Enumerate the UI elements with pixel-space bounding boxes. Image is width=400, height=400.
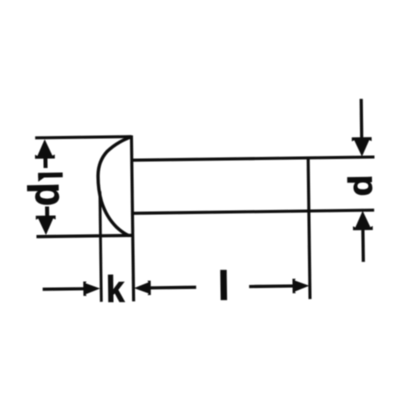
label d1 (rotated) : subscript 1 drawn as shapes — [38, 172, 63, 181]
rivet head bottom line (d1 extension, left) — [36, 235, 132, 236]
d1 dimension top arrow (points up at head top line) — [35, 139, 55, 159]
rivet head top line (d1 extension, left) — [35, 137, 131, 138]
shank top line + d extension to the right — [131, 157, 374, 160]
rivet head flat face + extension line down to k/l dimension — [131, 135, 133, 301]
svg-text:l: l — [218, 263, 230, 309]
l dimension line left segment — [146, 286, 196, 290]
l dimension line right segment + arrow pointing right — [249, 284, 296, 288]
k extension line (left, from dome tangent down) — [100, 191, 101, 301]
k dimension left tail + arrow pointing right — [43, 287, 88, 291]
d dimension top arrow (points down at shank top extension) — [352, 137, 372, 157]
shank end vertical + l extension line down — [308, 157, 310, 299]
shank bottom line + d extension to the right — [132, 210, 374, 213]
svg-text:d: d — [342, 175, 379, 197]
d1 dimension bottom arrow (points down at head bottom line) — [36, 215, 56, 235]
svg-text:d: d — [19, 182, 68, 206]
svg-text:k: k — [106, 269, 125, 311]
d dimension bottom arrow (points up at shank bottom extension) — [353, 211, 373, 231]
rivet head dome arc — [98, 137, 133, 236]
shared arrow at head face pointing left (k right / l left) — [134, 281, 151, 296]
